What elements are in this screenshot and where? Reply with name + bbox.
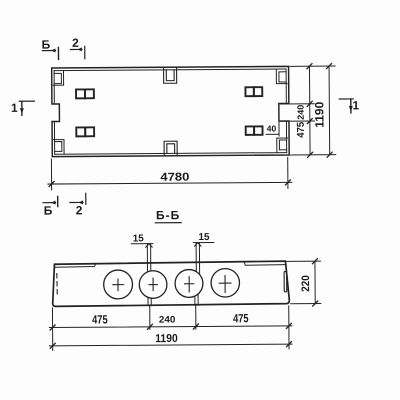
slit 15 right lower pair xyxy=(195,294,198,305)
void circle 2 with cross xyxy=(139,271,167,299)
section right edge key groove xyxy=(284,271,287,292)
dimension 40 at bottom-right loop xyxy=(266,121,279,136)
section outline xyxy=(52,261,289,306)
svg-text:475: 475 xyxy=(296,121,307,137)
plan inner outline left segments xyxy=(53,71,56,155)
slit 15 left upper pair xyxy=(147,244,150,272)
svg-text:4780: 4780 xyxy=(160,172,189,184)
svg-text:Б: Б xyxy=(44,204,53,218)
void circle 4 with cross xyxy=(211,269,240,298)
label 15 right with shelf xyxy=(193,232,214,246)
svg-text:1: 1 xyxy=(11,101,18,115)
svg-text:475: 475 xyxy=(233,311,249,325)
mid socket top edge xyxy=(164,68,177,84)
svg-text:15: 15 xyxy=(198,232,210,243)
section mark 1 left xyxy=(11,101,34,116)
slit 15 right upper pair xyxy=(196,243,200,275)
lifting loop top-left xyxy=(76,89,94,98)
svg-text:Б: Б xyxy=(42,38,51,52)
plan inner outline top line xyxy=(54,69,286,71)
plan inner outline right segments xyxy=(285,69,288,153)
void circle 3 with cross xyxy=(175,269,203,297)
svg-text:2: 2 xyxy=(72,36,79,50)
lifting loop top-right xyxy=(245,87,262,96)
plan outer outline with edge notches xyxy=(52,66,290,156)
svg-text:15: 15 xyxy=(133,233,145,244)
dimension row 475 240 475 xyxy=(49,311,292,330)
section top rebate right xyxy=(244,262,285,266)
title B-B xyxy=(155,208,181,223)
corner socket top-left xyxy=(53,71,63,85)
svg-text:2: 2 xyxy=(76,203,83,217)
dimension 220 right of section xyxy=(287,259,321,307)
lifting loop bottom-left xyxy=(76,127,94,136)
dimension 1190 bottom xyxy=(49,332,292,348)
dimension 4780 xyxy=(48,157,292,190)
label 15 left with shelf xyxy=(131,233,153,247)
mid socket bottom edge xyxy=(164,141,177,155)
section mark B top xyxy=(42,37,59,59)
right side dimensions 240 475 1190 xyxy=(280,64,336,158)
section mark 1 right xyxy=(339,98,359,113)
svg-text:1: 1 xyxy=(352,98,359,112)
svg-text:Б-Б: Б-Б xyxy=(156,208,180,222)
section mark 2 bottom xyxy=(70,193,86,217)
corner socket bottom-right xyxy=(277,138,288,152)
svg-text:475: 475 xyxy=(92,312,108,326)
svg-text:220: 220 xyxy=(300,275,312,292)
void circle 1 with cross xyxy=(104,270,133,299)
svg-text:1190: 1190 xyxy=(312,101,326,127)
slit 15 left lower pair xyxy=(148,297,151,305)
section left edge key dashed xyxy=(56,273,58,294)
lifting loop bottom-right xyxy=(246,126,263,135)
svg-text:240: 240 xyxy=(159,314,176,325)
svg-text:40: 40 xyxy=(267,123,277,133)
section bottom extension lines xyxy=(52,305,289,350)
svg-text:1190: 1190 xyxy=(155,333,178,345)
section top rebate left xyxy=(55,264,96,267)
section mark B bottom xyxy=(43,196,58,217)
section mark 2 top xyxy=(70,36,84,59)
corner socket bottom-left xyxy=(54,140,64,154)
svg-text:240: 240 xyxy=(296,105,306,120)
plan inner outline bottom line xyxy=(55,153,287,155)
corner socket top-right xyxy=(276,69,287,83)
